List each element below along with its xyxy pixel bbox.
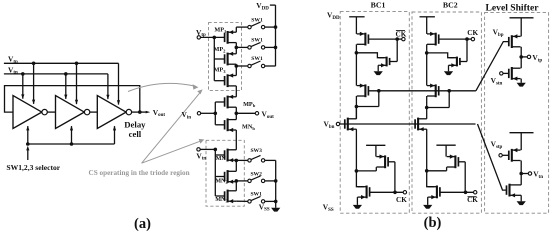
dashed box MP current sources — [209, 23, 242, 91]
ground (BC1 M2) — [374, 71, 383, 75]
wire MP2 gate lead — [214, 58, 224, 60]
wire MP2/MP3 node to SW3 — [235, 64, 248, 68]
wire+arrow selector into inverter 1 — [26, 126, 29, 144]
wire LS M2 source — [520, 79, 522, 83]
wire BC2 VDD rail bar — [420, 16, 435, 18]
junction on Vtn line at inverter 1 — [21, 72, 25, 76]
wire MPb drain to output — [235, 107, 237, 113]
svg-text:(a): (a) — [134, 216, 151, 232]
power VDD label (BC1) — [327, 11, 340, 21]
wire BC2 bus to M6 — [427, 171, 435, 187]
svg-text:CK: CK — [396, 31, 407, 39]
wire LS M2 gate — [503, 72, 509, 74]
dashed box Level Shifter — [485, 12, 549, 213]
wire BC1 M6 source to gnd — [356, 197, 359, 205]
svg-text:SW1: SW1 — [251, 17, 263, 23]
transistor BC1 M1 (PMOS) — [357, 32, 369, 46]
wire SW2 to rail — [265, 46, 278, 50]
wire U1 to U2 — [47, 111, 55, 113]
node Vtp label (delay line control line 1) — [8, 55, 18, 65]
wire BC1 lower VDD tap — [375, 145, 377, 156]
node Vtp terminal (cell) — [196, 28, 206, 39]
svg-text:CK: CK — [467, 196, 478, 204]
node Vstp terminal — [499, 154, 502, 157]
wire MN2-MN3 bus — [235, 179, 239, 191]
switch SW2 top — [248, 42, 265, 49]
node CKbar terminal (BC1 top) — [402, 37, 405, 40]
wire BC2 M1 drain — [425, 44, 429, 54]
node CKbar terminal (BC2 bottom) — [474, 191, 477, 194]
wire LS bus2 — [520, 174, 522, 185]
transistor BC2 M5 (PMOS clocked) — [447, 155, 459, 169]
ground (LS bottom) — [517, 201, 526, 205]
svg-text:(b): (b) — [424, 215, 442, 231]
gray arrow to MN box — [142, 139, 205, 163]
label MP3 — [214, 67, 227, 74]
transistor BC1 M4 (NMOS Vbn) — [345, 118, 357, 132]
switch SW1 bottom — [248, 196, 265, 203]
wire BC1 M2 gate to CKb — [390, 39, 398, 61]
transistor BC2 M2 (NMOS cap) — [450, 57, 460, 68]
svg-text:SW1: SW1 — [251, 38, 263, 44]
power VDD label (delay cell) — [256, 1, 269, 11]
gray annotation text CS operating — [89, 169, 190, 177]
label MN3 — [215, 196, 228, 203]
dashed box MN current sources — [206, 140, 244, 206]
transistor BC2 M1 (PMOS) — [427, 32, 439, 46]
node Vtn output terminal — [528, 169, 543, 179]
label Delay cell — [124, 120, 146, 139]
switch SW1 top — [248, 22, 265, 29]
junction output node — [138, 110, 142, 114]
title BC2 — [443, 0, 458, 9]
junction on Vtn line at inverter 2 — [64, 72, 68, 76]
inverter U3 output bubble — [126, 109, 131, 114]
switch SW3 bottom label — [250, 148, 262, 154]
wire BC1 M4 drain up — [355, 107, 357, 119]
transistor MPb — [225, 95, 237, 109]
wire+arrow Vtn into inverter 3 — [106, 74, 109, 100]
wire Vbn rail — [340, 123, 476, 125]
wire MN1-MN2 bus — [235, 159, 239, 172]
title Level Shifter — [485, 3, 539, 14]
wire Vbp diagonal to LS — [476, 42, 509, 91]
title BC1 — [371, 0, 386, 9]
label Vbp — [493, 28, 504, 38]
wire Vtn control line — [4, 73, 108, 75]
wire BC2 M2 source down — [449, 65, 450, 71]
label Vstp — [491, 140, 503, 150]
wire MP1 source to SW1 — [236, 27, 248, 32]
wire BC1 bus to M6 — [356, 171, 364, 187]
wire LS M4 source — [520, 195, 522, 201]
wire BC2 M5 gate down — [458, 162, 465, 193]
wire+arrow Vtn into inverter 1 — [21, 74, 24, 99]
wire MP3-MPb bus — [235, 86, 237, 97]
wire+arrow Vtn into inverter 2 — [64, 74, 67, 99]
wire MP1-MP2 bus — [235, 43, 237, 54]
wire Vbp rail — [368, 90, 476, 92]
power VSS label (cell) — [259, 202, 270, 212]
node Vin terminal (cell) — [182, 110, 201, 120]
wire LS2 VDD bar — [510, 132, 534, 134]
switch SW2 bottom label — [250, 171, 262, 177]
wire BC1 M2 source down — [378, 65, 379, 71]
label MP2 — [214, 46, 227, 53]
transistor MNb — [225, 118, 237, 132]
node Vbn terminal — [324, 119, 340, 129]
node Vout terminal (cell) — [255, 110, 274, 120]
node Vout label (a) — [153, 108, 166, 118]
svg-text:cell: cell — [129, 129, 142, 139]
wire BC2 node to M5 drain — [427, 167, 447, 171]
transistor BC1 M5 (PMOS clocked) — [376, 155, 388, 169]
transistor LS M3 (PMOS) — [509, 148, 521, 162]
power VSS label (BC1) — [323, 202, 334, 212]
wire LS M1 drain — [519, 47, 523, 59]
ground (BC1 M6) — [353, 205, 362, 209]
transistor MN1 — [225, 149, 237, 163]
wire BC2 M6 gate to CKb — [440, 191, 474, 195]
wire output node — [235, 112, 256, 116]
switch SW1 bottom label — [250, 191, 262, 197]
wire LS Vtp out — [521, 56, 527, 58]
junction selector bus left — [26, 142, 30, 146]
ground (BC2 M2) — [444, 71, 453, 75]
ground (cell VSS) — [271, 208, 280, 212]
wire BC1 M4 source bus — [355, 129, 359, 173]
svg-text:SW1: SW1 — [251, 56, 263, 62]
wire Vtn to MN gates — [200, 148, 224, 196]
switch SW3 top label — [251, 56, 263, 62]
wire Vtp to MP gates — [201, 36, 225, 81]
wire BC1 node to M5 drain — [356, 167, 376, 171]
label MNb — [242, 123, 255, 130]
switch SW2 top label — [251, 38, 263, 44]
svg-text:SW3: SW3 — [250, 148, 262, 154]
wire BC2 M6 source to gnd — [427, 197, 430, 205]
transistor LS M2 (NMOS) — [509, 67, 521, 81]
wire bottom selector bus — [28, 143, 115, 145]
wire feedback loop — [5, 86, 140, 113]
wire BC1 M6 gate to CK — [370, 191, 404, 195]
arrow to Vout — [146, 111, 151, 114]
label CKbar (BC1 top) — [396, 31, 407, 39]
wire MN3 node to SW1 — [236, 200, 248, 202]
svg-text:SW1,2,3 selector: SW1,2,3 selector — [6, 163, 60, 172]
svg-text:Level Shifter: Level Shifter — [485, 3, 539, 14]
wire+arrow selector into inverter 2 — [70, 126, 73, 144]
label CK (BC1 bottom) — [396, 196, 407, 204]
node CK terminal (BC2 top) — [471, 37, 474, 40]
wire MP1/MP2 node to SW2 — [235, 46, 248, 50]
wire SW1 to VSS rail — [265, 200, 278, 204]
transistor MP3 — [225, 73, 237, 87]
wire LS bus1 — [520, 57, 522, 68]
wire+arrow Vtp into inverter 3 — [117, 63, 120, 105]
junction BC1 diode tap — [377, 89, 381, 93]
transistor BC2 M3 (PMOS) — [427, 84, 439, 98]
wire MP2-MP3 bus — [235, 64, 237, 75]
svg-text:BC1: BC1 — [371, 0, 386, 9]
label CKbar (BC2 bottom) — [467, 196, 478, 204]
transistor MP1 — [225, 30, 237, 44]
node Vtp output terminal — [527, 53, 542, 63]
svg-text:CK: CK — [396, 196, 407, 204]
wire LS2 VDD tap — [520, 133, 522, 150]
transistor BC2 M6 (NMOS clocked) — [428, 186, 440, 200]
transistor MP2 — [225, 52, 237, 66]
label SW1,2,3 selector — [6, 163, 60, 172]
wire LS1 VDD bar — [510, 17, 534, 19]
wire LS Vtn out — [521, 173, 528, 175]
junction BC2 diode tap — [447, 89, 451, 93]
transistor LS M4 (NMOS) — [507, 184, 522, 198]
wire output to MNb drain — [235, 113, 237, 119]
node CK terminal (BC1 bottom) — [403, 191, 406, 194]
wire MNb-MN1 bus — [235, 130, 237, 150]
label MP1 — [214, 27, 227, 34]
inverter U2 output bubble — [84, 109, 89, 114]
wire SW3 to VSS rail — [265, 159, 276, 161]
svg-text:CK: CK — [467, 29, 478, 37]
wire BC2 M2 gate to CK — [460, 39, 467, 61]
wire MN1 node to SW3 — [236, 159, 248, 161]
transistor LS M1 (PMOS) — [509, 34, 521, 48]
label MN2 — [215, 177, 228, 184]
wire BC2 M3 drain — [425, 96, 429, 119]
label (b) — [424, 215, 442, 231]
switch SW3 bottom — [248, 155, 265, 162]
wire LS M3 gate — [502, 154, 509, 156]
wire BC2 VDD tap — [426, 17, 428, 34]
wire BC2 lower VDD tap — [445, 145, 447, 156]
wire BC1 diode connect — [356, 91, 378, 107]
gray curved arrow to MP stack — [128, 83, 198, 91]
wire SW1 to rail — [265, 25, 278, 29]
node Vtn terminal (cell) — [196, 148, 206, 162]
transistor BC1 M2 (NMOS cap) — [379, 57, 389, 68]
wire+arrow Vtp into inverter 1 — [32, 63, 35, 104]
wire BC1 VDD tap — [355, 17, 357, 34]
wire BC1 lower VDD bar — [366, 144, 385, 146]
label MN1 — [216, 155, 229, 162]
inverter U1 output bubble — [42, 109, 47, 114]
label MPb — [243, 101, 256, 108]
wire BC2 M2 branch — [427, 53, 455, 58]
wire VDD right rail — [275, 5, 277, 66]
transistor MN2 — [225, 170, 237, 184]
switch SW2 bottom — [248, 176, 265, 183]
wire VDD to rail — [270, 4, 276, 6]
wire Vtp control line — [4, 62, 119, 64]
wire BC2 M1 gate to CK — [439, 37, 472, 41]
wire VSS rail — [275, 160, 277, 207]
wire LS1 VDD tap — [520, 18, 522, 37]
transistor MN3 — [225, 190, 237, 204]
inverter U2 — [56, 96, 85, 129]
wire Vbn diagonal to LS — [478, 124, 507, 190]
svg-text:BC2: BC2 — [443, 0, 458, 9]
wire SW3 to rail — [265, 65, 276, 67]
wire BC2 M4 source bus — [425, 129, 429, 172]
wire Vin to gates — [201, 102, 225, 125]
wire SW2 to VSS rail — [265, 179, 278, 183]
wire BC1 M1 gate to CKb — [368, 37, 401, 41]
inverter U1 — [13, 96, 42, 129]
junction on Vtp line at inverter 2 — [75, 62, 79, 66]
switch SW1 top label — [251, 17, 263, 23]
transistor BC2 M4 (NMOS Vbn) — [415, 118, 427, 132]
wire BC1 M5 gate down — [388, 162, 395, 193]
dashed box BC2 — [412, 12, 481, 213]
wire MP3 gate lead — [214, 80, 224, 82]
wire LS M3 drain — [519, 161, 523, 176]
label (a) — [134, 216, 151, 232]
junction on Vtp line at inverter 1 — [32, 62, 36, 66]
wire U2 to U3 — [90, 111, 98, 113]
wire+arrow selector into inverter 3 — [113, 126, 116, 144]
wire BC1 M3 drain — [355, 96, 359, 119]
ground (BC2 M6) — [423, 205, 432, 209]
ground (LS top) — [517, 83, 526, 87]
wire BC1 M1 drain — [355, 44, 359, 54]
node Vstn terminal — [491, 72, 503, 87]
wire BC1 M2 branch — [356, 53, 384, 58]
inverter U3 — [97, 96, 126, 129]
gray arrow to MP box — [142, 89, 203, 163]
svg-text:CS operating in the triode reg: CS operating in the triode region — [89, 169, 190, 177]
wire U3 output to Vout — [132, 111, 146, 113]
annotation arrow SW selector — [26, 146, 29, 160]
wire MN2 node to SW2 — [236, 180, 248, 182]
junction selector bus mid — [70, 142, 74, 146]
node Vtn label (delay line control line 2) — [8, 65, 18, 75]
wire BC1 VDD rail bar — [349, 16, 364, 18]
wire+arrow Vtp into inverter 2 — [75, 63, 78, 104]
wire BC1 bus M1-M3 — [355, 53, 357, 86]
wire BC2 diode connect — [427, 91, 450, 108]
label CK (BC2 top) — [467, 29, 478, 37]
wire BC2 lower VDD bar — [436, 144, 455, 146]
wire BC2 bus M1-M3 — [426, 53, 428, 86]
switch SW3 top — [248, 61, 265, 68]
transistor BC1 M6 (NMOS clocked) — [358, 186, 370, 200]
transistor BC1 M3 (PMOS diode) — [357, 84, 369, 98]
dashed box BC1 — [340, 12, 409, 214]
